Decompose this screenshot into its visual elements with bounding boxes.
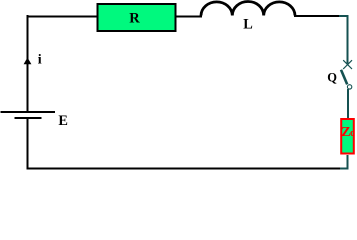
- svg-text:i: i: [38, 53, 42, 68]
- wire: [339, 155, 348, 169]
- wire: [27, 15, 29, 111]
- battery E: [1, 112, 68, 129]
- wire: [27, 15, 341, 17]
- svg-text:Q: Q: [327, 70, 337, 84]
- wire: [27, 118, 29, 170]
- wire: [27, 168, 341, 170]
- wire: [339, 16, 348, 63]
- current arrow i: [24, 53, 42, 68]
- wire: [347, 89, 349, 119]
- switch Q: [327, 60, 352, 89]
- impedance Zc: [341, 119, 355, 154]
- resistor R: [98, 4, 176, 31]
- svg-text:E: E: [58, 113, 68, 129]
- svg-text:R: R: [129, 10, 140, 26]
- svg-text:L: L: [243, 16, 253, 32]
- svg-text:c: c: [350, 128, 355, 139]
- inductor L: [201, 1, 295, 32]
